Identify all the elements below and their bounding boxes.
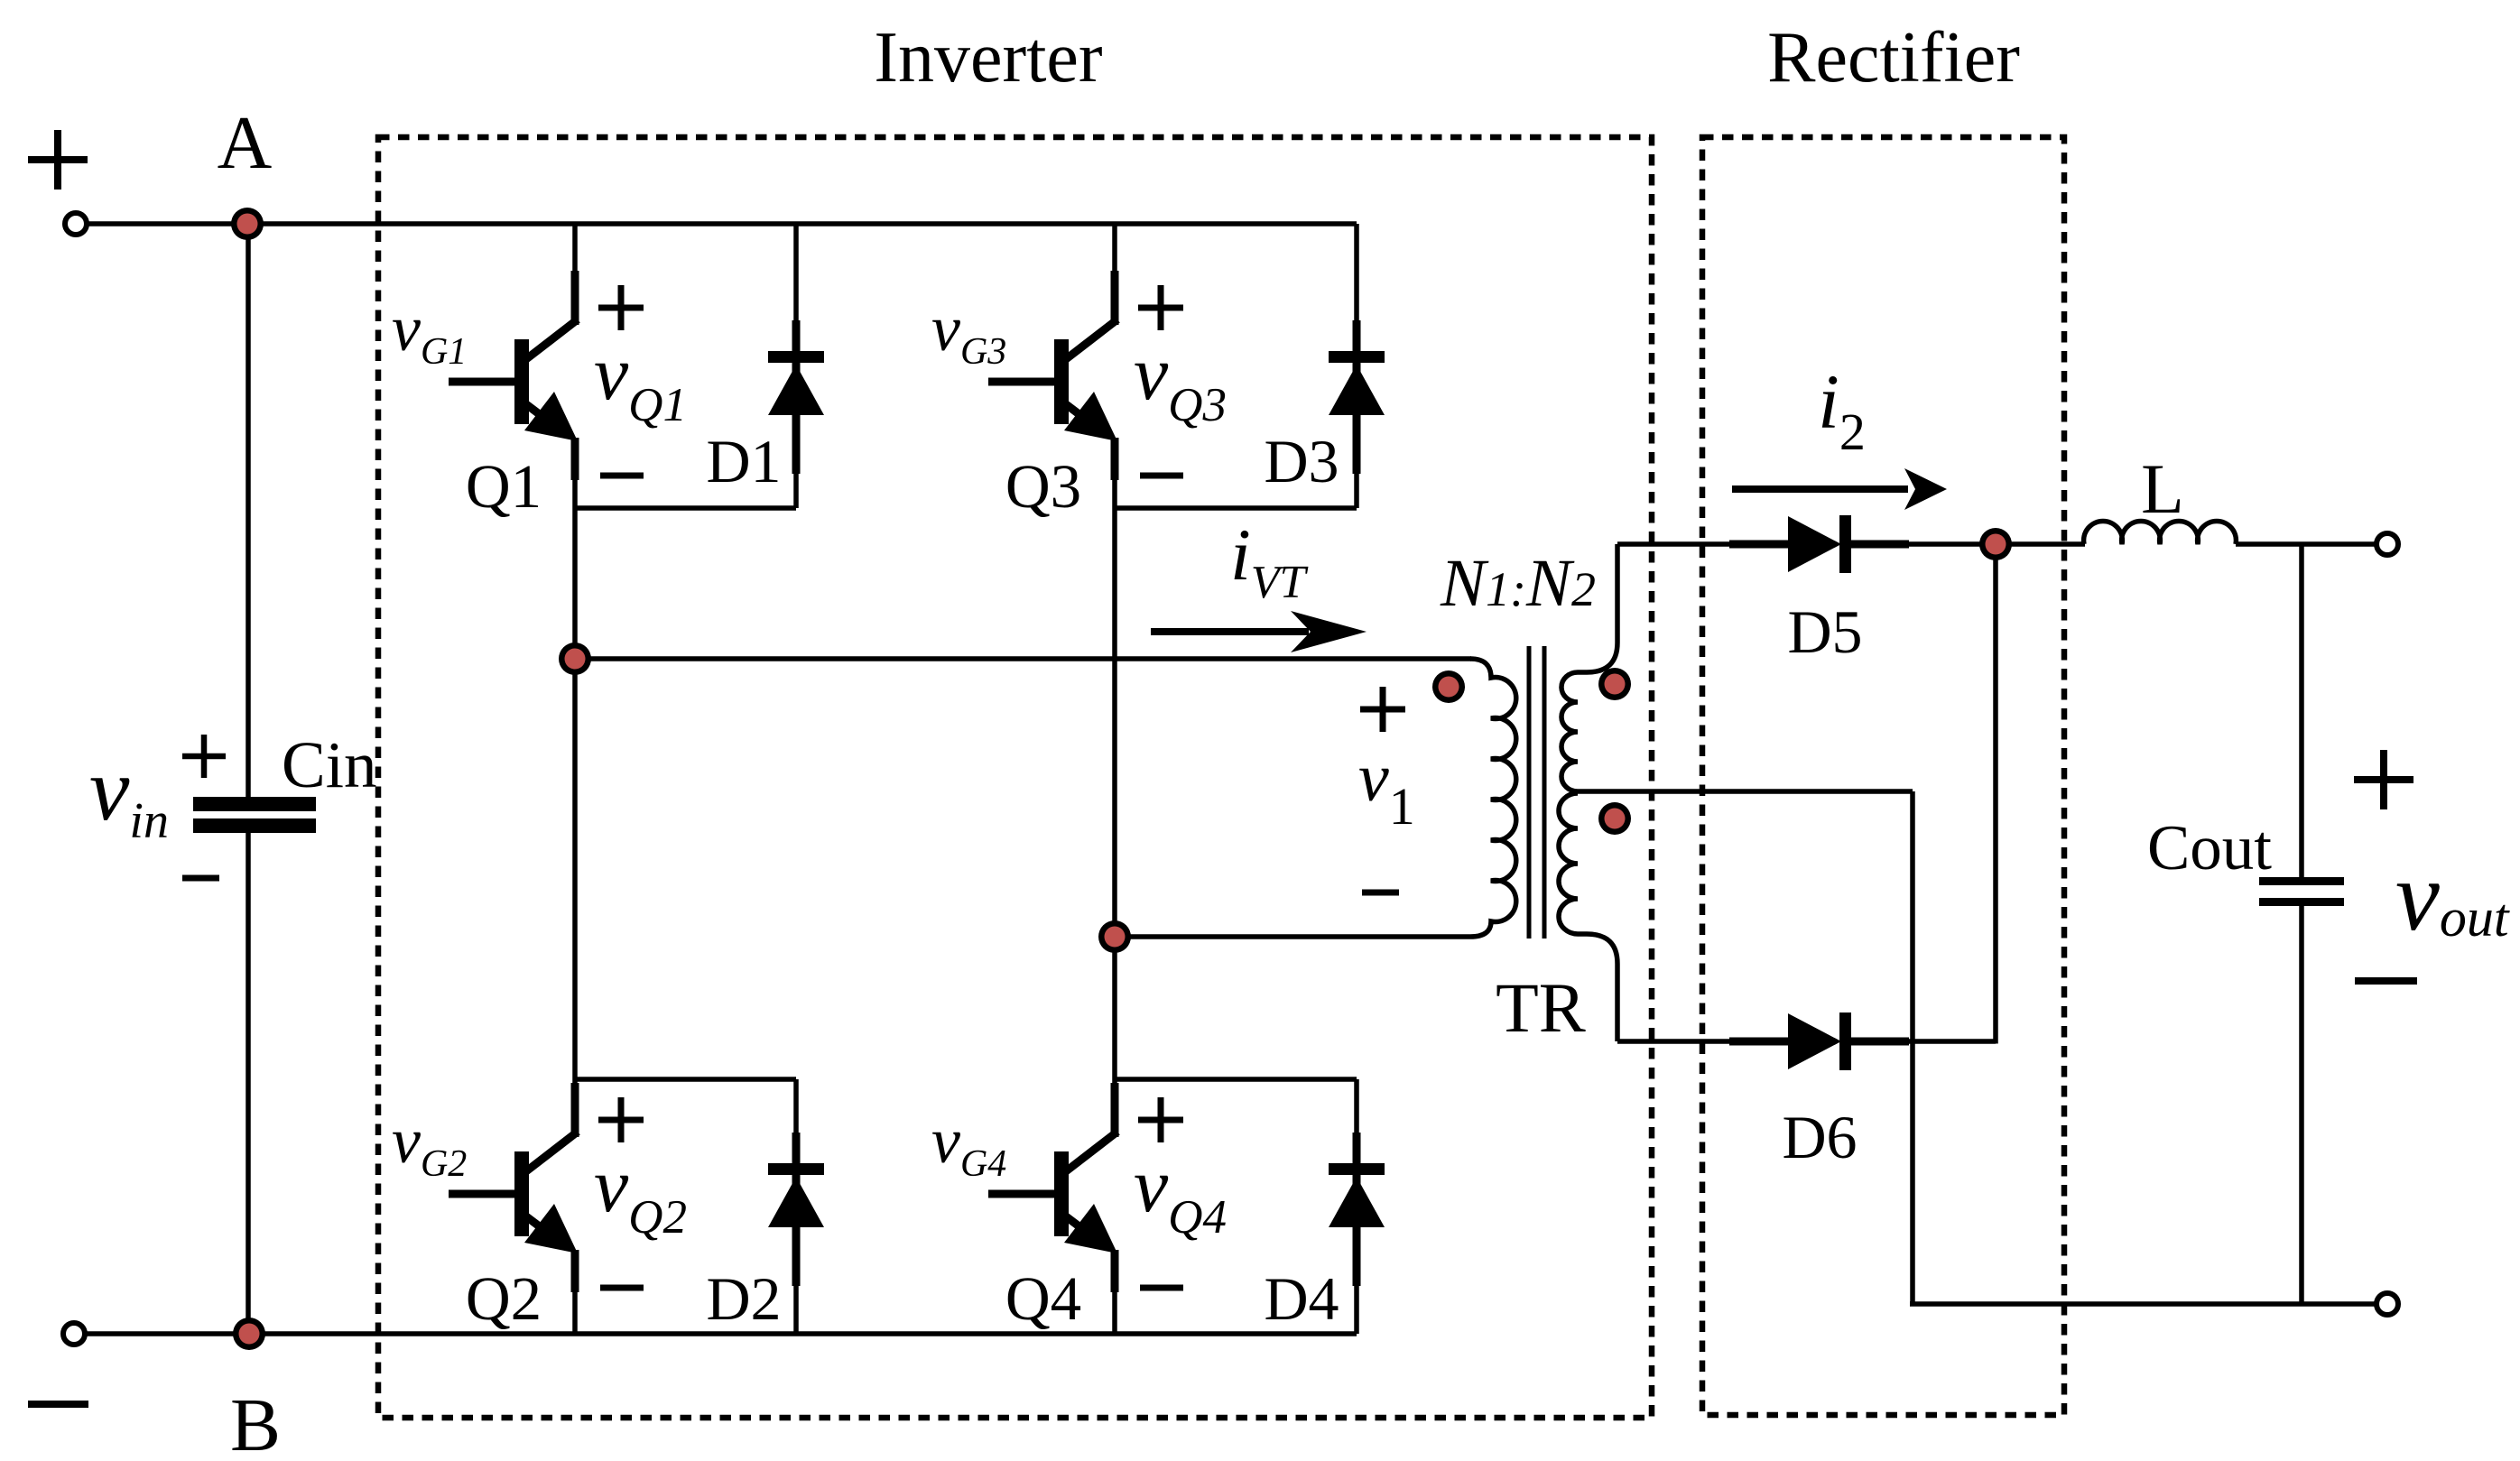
polarity dot secondary lower xyxy=(1598,802,1631,835)
transistor Q3 xyxy=(988,271,1117,480)
transformer center tap wire xyxy=(1578,789,1913,794)
v_Q2 minus polarity xyxy=(600,1285,644,1291)
svg-text:vQ4: vQ4 xyxy=(1134,1142,1227,1244)
wire bottom rail B xyxy=(85,1331,1357,1336)
svg-text:vin: vin xyxy=(89,739,169,849)
svg-text:D1: D1 xyxy=(706,427,781,495)
wire Cout bottom xyxy=(2299,906,2304,1304)
capacitor Cout xyxy=(2259,877,2344,885)
svg-text:D2: D2 xyxy=(706,1264,781,1333)
wire junction to inductor xyxy=(1996,541,2085,547)
input plus polarity mark xyxy=(28,130,88,190)
svg-text:vQ3: vQ3 xyxy=(1134,329,1227,431)
svg-text:vQ2: vQ2 xyxy=(594,1142,687,1244)
svg-text:vQ1: vQ1 xyxy=(594,329,687,431)
svg-text:D6: D6 xyxy=(1782,1103,1857,1171)
svg-text:B: B xyxy=(230,1383,281,1461)
svg-text:v1: v1 xyxy=(1358,740,1415,836)
diode D2 xyxy=(768,1079,824,1334)
wire inductor to output terminal xyxy=(2236,541,2386,547)
node A xyxy=(231,208,264,240)
wire D3 emitter link xyxy=(1115,505,1357,511)
svg-text:vG3: vG3 xyxy=(931,292,1006,373)
svg-text:Q4: Q4 xyxy=(1005,1264,1081,1333)
input negative terminal xyxy=(63,1323,85,1345)
v_out minus polarity xyxy=(2355,977,2417,985)
svg-text:D4: D4 xyxy=(1264,1264,1339,1333)
v_Q4 plus polarity xyxy=(1138,1097,1183,1142)
svg-text:Rectifier: Rectifier xyxy=(1767,18,2020,97)
svg-text:iVT: iVT xyxy=(1230,513,1309,608)
transistor Q1 xyxy=(449,271,578,480)
output negative terminal xyxy=(2376,1293,2398,1315)
svg-text:D3: D3 xyxy=(1264,427,1339,495)
v_Q3 minus polarity xyxy=(1140,473,1183,479)
transformer secondary upper winding xyxy=(1561,544,1617,791)
wire Q3 collector xyxy=(1112,224,1117,275)
wire output bottom xyxy=(1910,1301,2386,1307)
node bridge leg A (Q1/Q2 junction) xyxy=(559,643,591,675)
svg-text:Q3: Q3 xyxy=(1005,452,1081,521)
svg-text:vG1: vG1 xyxy=(392,292,467,373)
v_Q2 plus polarity xyxy=(598,1097,644,1142)
inverter section dashed box xyxy=(378,137,1652,1418)
wire Q2 collector from node A leg xyxy=(572,661,578,1087)
svg-text:Cin: Cin xyxy=(282,728,376,801)
wire Q4 emitter to rail xyxy=(1112,1290,1117,1334)
wire D4 collector link xyxy=(1115,1077,1357,1082)
wire secondary bottom to D6 xyxy=(1617,1039,1733,1044)
polarity dot primary xyxy=(1432,670,1465,703)
wire center tap return vertical xyxy=(1910,791,1915,1307)
transformer secondary lower winding xyxy=(1559,793,1617,1041)
wire D5 to output node xyxy=(1904,541,1996,547)
svg-text:i2: i2 xyxy=(1818,358,1866,461)
diode D4 xyxy=(1329,1079,1385,1334)
node bridge leg B (Q3/Q4 junction) xyxy=(1098,920,1131,953)
v1 minus polarity xyxy=(1362,890,1399,896)
svg-text:L: L xyxy=(2141,449,2184,528)
svg-text:vout: vout xyxy=(2395,841,2510,951)
rectifier section dashed box xyxy=(1702,137,2064,1415)
svg-text:A: A xyxy=(218,101,273,185)
Cin plus polarity xyxy=(182,735,226,778)
svg-text:Inverter: Inverter xyxy=(874,18,1102,97)
node B xyxy=(233,1318,265,1350)
svg-text:Cout: Cout xyxy=(2147,813,2272,883)
diode D1 xyxy=(768,224,824,508)
wire Cin top xyxy=(246,224,251,798)
wire secondary top to D5 xyxy=(1617,541,1733,547)
svg-text:Q2: Q2 xyxy=(466,1264,542,1333)
svg-text:Q1: Q1 xyxy=(466,452,542,521)
current arrow i2 xyxy=(1732,485,1908,493)
wire Q1 collector xyxy=(572,224,578,275)
v_Q4 minus polarity xyxy=(1140,1285,1183,1291)
wire D2 collector link xyxy=(575,1077,796,1082)
inductor L xyxy=(2084,521,2237,544)
node rectifier output junction xyxy=(1979,528,2012,560)
transistor Q2 xyxy=(449,1083,578,1292)
v_Q1 plus polarity xyxy=(598,285,644,330)
svg-text:D5: D5 xyxy=(1787,597,1862,666)
polarity dot secondary upper xyxy=(1598,668,1631,700)
svg-text:N1:N2: N1:N2 xyxy=(1440,546,1596,621)
diode D3 xyxy=(1329,224,1385,508)
wire D1 emitter link xyxy=(575,505,796,511)
input minus polarity mark xyxy=(28,1401,88,1408)
svg-text:vG2: vG2 xyxy=(392,1105,467,1185)
wire Q1 emitter to node A leg xyxy=(572,478,578,661)
wire Q4 collector from node leg xyxy=(1112,939,1117,1087)
current arrow i_VT xyxy=(1151,628,1309,635)
diode D6 xyxy=(1729,1013,1909,1070)
output positive terminal xyxy=(2376,533,2398,555)
wire top rail A xyxy=(87,221,1357,227)
transistor Q4 xyxy=(988,1083,1117,1292)
transformer TR primary winding xyxy=(1470,659,1516,937)
v1 plus polarity xyxy=(1360,687,1405,732)
v_out plus polarity xyxy=(2354,750,2413,809)
capacitor Cin xyxy=(193,797,316,811)
svg-text:TR: TR xyxy=(1496,968,1586,1047)
wire D6 to junction xyxy=(1904,1039,1996,1044)
v_Q1 minus polarity xyxy=(600,473,644,479)
wire node A leg to primary xyxy=(575,656,1471,661)
wire primary bottom xyxy=(1115,934,1470,939)
diode D5 xyxy=(1729,515,1909,573)
wire Cin bottom xyxy=(246,832,251,1334)
wire rectifier junction down xyxy=(1993,544,1998,1044)
v_Q3 plus polarity xyxy=(1138,285,1183,330)
input positive terminal xyxy=(65,213,87,235)
transformer core xyxy=(1527,646,1532,939)
wire Cout top xyxy=(2299,544,2304,881)
wire Q3 emitter to node leg xyxy=(1112,478,1117,939)
svg-text:vG4: vG4 xyxy=(931,1105,1006,1185)
Cin minus polarity xyxy=(182,875,219,882)
wire Q2 emitter to rail xyxy=(572,1290,578,1334)
